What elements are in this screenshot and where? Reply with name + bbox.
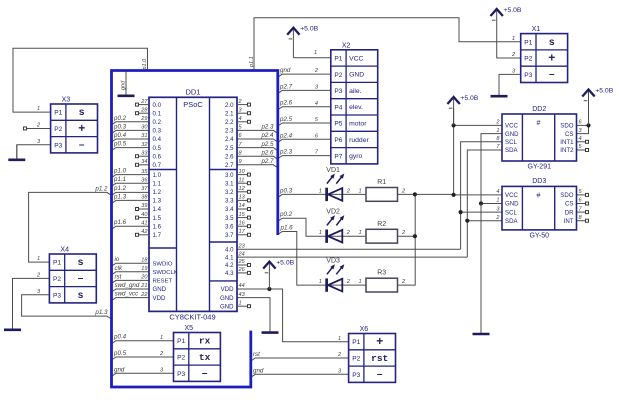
svg-text:+5.0B: +5.0B — [504, 7, 522, 14]
svg-text:4: 4 — [315, 101, 318, 107]
svg-text:P2: P2 — [177, 354, 185, 361]
svg-text:14: 14 — [239, 203, 245, 209]
svg-text:1: 1 — [239, 300, 242, 306]
svg-text:1: 1 — [512, 36, 515, 42]
svg-text:1: 1 — [496, 128, 499, 134]
svg-text:p2.4: p2.4 — [279, 132, 293, 139]
svg-text:42: 42 — [141, 229, 148, 235]
svg-text:p2.3: p2.3 — [260, 124, 274, 131]
svg-text:p1.6: p1.6 — [113, 219, 127, 226]
svg-text:3.1: 3.1 — [225, 180, 234, 187]
svg-text:GY-50: GY-50 — [529, 232, 549, 239]
svg-text:P3: P3 — [524, 72, 532, 79]
svg-text:17: 17 — [239, 229, 246, 235]
svg-text:3.2: 3.2 — [225, 189, 234, 196]
svg-text:CY8CKIT-049: CY8CKIT-049 — [169, 313, 215, 322]
svg-text:1: 1 — [160, 335, 163, 341]
svg-text:CS: CS — [565, 201, 573, 208]
svg-text:1.4: 1.4 — [153, 206, 162, 213]
svg-text:13: 13 — [239, 195, 246, 201]
svg-text:3.3: 3.3 — [225, 198, 234, 205]
svg-text:p0.5: p0.5 — [113, 350, 127, 357]
svg-text:–: – — [78, 273, 84, 284]
svg-text:p1.0: p1.0 — [142, 58, 148, 71]
svg-text:19: 19 — [141, 266, 147, 272]
svg-text:GND: GND — [220, 295, 234, 302]
svg-text:11: 11 — [239, 177, 245, 183]
svg-text:41: 41 — [141, 220, 147, 226]
svg-text:–: – — [377, 369, 383, 380]
svg-text:3.0: 3.0 — [225, 172, 234, 179]
svg-text:p2.7: p2.7 — [279, 83, 293, 90]
svg-text:2.0: 2.0 — [225, 102, 234, 109]
svg-text:VDD: VDD — [221, 286, 234, 293]
svg-text:p1.3: p1.3 — [94, 309, 108, 316]
svg-text:DD3: DD3 — [532, 178, 546, 185]
svg-text:44: 44 — [239, 283, 245, 289]
svg-text:s: s — [79, 107, 85, 118]
svg-text:2.1: 2.1 — [225, 110, 234, 117]
svg-text:0.6: 0.6 — [153, 153, 162, 160]
svg-text:s: s — [549, 37, 555, 48]
svg-text:X1: X1 — [532, 26, 541, 33]
svg-text:4: 4 — [496, 189, 499, 195]
svg-text:GY-291: GY-291 — [528, 164, 552, 171]
svg-text:gnd: gnd — [253, 367, 264, 374]
svg-text:VCC: VCC — [349, 55, 363, 62]
svg-text:0.3: 0.3 — [153, 128, 162, 135]
svg-text:3.7: 3.7 — [225, 232, 234, 239]
svg-text:P6: P6 — [334, 137, 342, 144]
svg-text:rst: rst — [115, 273, 122, 280]
svg-text:9: 9 — [239, 159, 242, 165]
svg-text:28: 28 — [140, 107, 148, 113]
svg-text:swd_gnd: swd_gnd — [115, 282, 140, 289]
svg-text:18: 18 — [141, 257, 148, 263]
svg-text:elev.: elev. — [349, 104, 363, 111]
svg-text:16: 16 — [239, 220, 246, 226]
svg-text:p2.4: p2.4 — [260, 132, 274, 139]
svg-text:+: + — [548, 51, 555, 65]
svg-text:VD1: VD1 — [326, 167, 340, 174]
svg-text:gnd: gnd — [121, 80, 127, 90]
svg-text:tx: tx — [199, 352, 211, 363]
svg-text:1: 1 — [359, 279, 362, 285]
svg-text:2.6: 2.6 — [225, 153, 234, 160]
svg-text:rudder: rudder — [349, 137, 369, 144]
svg-text:1.7: 1.7 — [153, 232, 162, 239]
svg-text:p2.7: p2.7 — [260, 158, 274, 165]
svg-text:p0.5: p0.5 — [113, 141, 127, 148]
svg-text:p2.6: p2.6 — [279, 100, 293, 107]
svg-text:27: 27 — [140, 99, 148, 105]
svg-text:1: 1 — [37, 256, 40, 262]
svg-text:3.4: 3.4 — [225, 206, 234, 213]
svg-text:1.3: 1.3 — [153, 198, 162, 205]
svg-text:p0.3: p0.3 — [113, 123, 127, 130]
svg-text:P2: P2 — [53, 276, 61, 283]
svg-text:P2: P2 — [54, 126, 62, 133]
svg-text:36: 36 — [141, 177, 148, 183]
svg-text:31: 31 — [141, 133, 147, 139]
svg-text:R3: R3 — [377, 270, 386, 277]
svg-text:1: 1 — [319, 188, 322, 194]
svg-text:0.2: 0.2 — [153, 119, 162, 126]
svg-text:motor: motor — [349, 120, 367, 127]
svg-text:P3: P3 — [54, 142, 62, 149]
svg-text:39: 39 — [141, 203, 147, 209]
svg-text:37: 37 — [141, 186, 148, 192]
svg-text:1.1: 1.1 — [153, 180, 162, 187]
svg-text:4: 4 — [239, 116, 242, 122]
svg-text:VD2: VD2 — [326, 209, 340, 216]
svg-text:GND: GND — [505, 201, 519, 208]
svg-text:P1: P1 — [334, 55, 342, 62]
svg-text:2.7: 2.7 — [225, 162, 234, 169]
svg-text:P3: P3 — [177, 371, 185, 378]
svg-text:aile.: aile. — [349, 88, 362, 95]
svg-text:INT2: INT2 — [560, 147, 574, 154]
svg-text:GND: GND — [220, 303, 234, 310]
svg-text:rst: rst — [371, 353, 388, 364]
svg-text:1.2: 1.2 — [153, 189, 162, 196]
svg-text:1.0: 1.0 — [153, 172, 162, 179]
svg-text:#: # — [537, 120, 541, 127]
svg-text:1: 1 — [319, 279, 322, 285]
svg-text:SDA: SDA — [505, 218, 518, 225]
svg-text:43: 43 — [239, 292, 246, 298]
svg-text:12: 12 — [239, 186, 246, 192]
svg-text:3.6: 3.6 — [225, 223, 234, 230]
svg-text:1: 1 — [496, 198, 499, 204]
svg-text:P1: P1 — [524, 39, 532, 46]
svg-text:DD2: DD2 — [532, 106, 546, 113]
svg-text:P2: P2 — [524, 56, 532, 63]
svg-text:VCC: VCC — [505, 123, 518, 130]
svg-text:4.0: 4.0 — [225, 246, 234, 253]
svg-text:p1.0: p1.0 — [113, 168, 127, 175]
svg-text:P3: P3 — [334, 88, 342, 95]
svg-text:p2.5: p2.5 — [260, 141, 274, 148]
svg-text:p1.2: p1.2 — [94, 185, 108, 192]
svg-text:RESET: RESET — [153, 279, 173, 285]
svg-text:INT1: INT1 — [560, 139, 574, 146]
svg-text:p1.1: p1.1 — [113, 176, 126, 183]
svg-text:P3: P3 — [53, 292, 61, 299]
svg-text:s: s — [78, 257, 84, 268]
svg-text:P2: P2 — [334, 72, 342, 79]
svg-text:p0.4: p0.4 — [113, 132, 127, 139]
svg-text:+5.0B: +5.0B — [276, 259, 294, 266]
svg-text:+5.0B: +5.0B — [460, 95, 478, 102]
svg-text:VCC: VCC — [505, 192, 518, 199]
svg-text:X2: X2 — [342, 42, 351, 49]
svg-text:P1: P1 — [54, 110, 62, 117]
svg-text:INT: INT — [564, 218, 574, 225]
svg-text:24: 24 — [238, 251, 245, 257]
svg-text:DR: DR — [565, 209, 574, 216]
svg-text:p0.4: p0.4 — [113, 334, 127, 341]
svg-text:40: 40 — [141, 212, 148, 218]
svg-text:gyro: gyro — [349, 153, 362, 160]
svg-text:P3: P3 — [352, 372, 360, 379]
svg-text:4.3: 4.3 — [225, 270, 234, 277]
svg-text:SWDCLK: SWDCLK — [153, 270, 178, 276]
svg-text:4.1: 4.1 — [225, 254, 234, 261]
svg-text:+5.0B: +5.0B — [595, 87, 613, 94]
svg-text:0.1: 0.1 — [153, 110, 162, 117]
svg-text:p2.5: p2.5 — [279, 116, 293, 123]
svg-text:p2.3: p2.3 — [279, 149, 293, 156]
svg-text:29: 29 — [140, 116, 147, 122]
svg-text:X4: X4 — [60, 247, 69, 254]
svg-text:–: – — [549, 69, 555, 80]
svg-text:rx: rx — [199, 336, 211, 347]
svg-text:0.5: 0.5 — [153, 145, 162, 152]
svg-text:SCL: SCL — [505, 209, 517, 216]
svg-text:s: s — [78, 290, 84, 301]
svg-text:SDO: SDO — [560, 123, 573, 130]
svg-text:X3: X3 — [62, 97, 71, 104]
svg-text:PSoC: PSoC — [183, 100, 203, 109]
svg-text:clk: clk — [115, 265, 123, 272]
svg-text:P1: P1 — [352, 339, 360, 346]
svg-text:CS: CS — [565, 131, 573, 138]
svg-text:GND: GND — [349, 72, 364, 79]
svg-text:22: 22 — [140, 292, 148, 298]
svg-text:1: 1 — [338, 336, 341, 342]
svg-text:DD1: DD1 — [185, 87, 200, 96]
svg-text:P5: P5 — [334, 121, 342, 128]
svg-text:p0.2: p0.2 — [113, 115, 127, 122]
svg-text:4.2: 4.2 — [225, 262, 234, 269]
svg-text:30: 30 — [141, 125, 148, 131]
svg-text:p1.1: p1.1 — [249, 56, 255, 68]
svg-text:p1.6: p1.6 — [280, 225, 294, 232]
svg-text:1: 1 — [319, 230, 322, 236]
svg-text:26: 26 — [238, 267, 246, 273]
svg-text:10: 10 — [239, 169, 246, 175]
svg-text:#: # — [537, 192, 541, 199]
svg-text:1: 1 — [314, 50, 317, 56]
svg-text:p1.2: p1.2 — [113, 185, 127, 192]
svg-text:R2: R2 — [377, 221, 386, 228]
svg-text:gnd: gnd — [280, 67, 291, 74]
svg-text:1: 1 — [359, 188, 362, 194]
svg-text:32: 32 — [141, 142, 148, 148]
svg-text:io: io — [115, 256, 120, 263]
svg-text:33: 33 — [141, 150, 148, 156]
svg-text:1: 1 — [359, 230, 362, 236]
svg-text:38: 38 — [141, 195, 148, 201]
svg-text:1.5: 1.5 — [153, 215, 162, 222]
svg-text:1: 1 — [37, 106, 40, 112]
svg-text:2.5: 2.5 — [225, 145, 234, 152]
svg-text:p1.3: p1.3 — [113, 193, 127, 200]
svg-text:20: 20 — [140, 275, 148, 281]
svg-text:0.0: 0.0 — [153, 102, 162, 109]
svg-text:+5.0B: +5.0B — [300, 26, 318, 33]
svg-text:swd_vcc: swd_vcc — [115, 291, 140, 298]
svg-text:2.2: 2.2 — [225, 119, 234, 126]
svg-text:SDO: SDO — [560, 192, 573, 199]
svg-text:P1: P1 — [53, 260, 61, 267]
svg-text:+: + — [78, 121, 85, 135]
svg-text:23: 23 — [238, 243, 246, 249]
svg-text:X6: X6 — [360, 326, 369, 333]
svg-text:0.7: 0.7 — [153, 162, 162, 169]
svg-text:SDA: SDA — [505, 147, 518, 154]
svg-text:–: – — [79, 139, 85, 150]
svg-text:+: + — [376, 334, 383, 348]
svg-text:P7: P7 — [334, 153, 342, 160]
svg-text:2.4: 2.4 — [225, 136, 234, 143]
svg-text:4: 4 — [579, 136, 582, 142]
svg-text:P4: P4 — [334, 104, 342, 111]
svg-text:2.3: 2.3 — [225, 128, 234, 135]
svg-text:p0.3: p0.3 — [279, 187, 293, 194]
svg-text:21: 21 — [140, 283, 147, 289]
svg-text:25: 25 — [238, 259, 246, 265]
svg-text:p2.6: p2.6 — [260, 149, 274, 156]
svg-text:3.5: 3.5 — [225, 215, 234, 222]
svg-text:rst: rst — [253, 351, 260, 358]
svg-text:34: 34 — [141, 159, 147, 165]
svg-text:GND: GND — [505, 131, 519, 138]
svg-text:VD3: VD3 — [326, 258, 340, 265]
svg-text:SWDIO: SWDIO — [153, 261, 173, 267]
svg-text:35: 35 — [141, 169, 148, 175]
svg-text:p0.2: p0.2 — [279, 211, 293, 218]
svg-text:VDD: VDD — [153, 295, 166, 302]
svg-text:R1: R1 — [377, 179, 386, 186]
svg-text:P1: P1 — [177, 338, 185, 345]
svg-text:X5: X5 — [185, 325, 194, 332]
svg-text:gnd: gnd — [114, 366, 125, 373]
svg-text:0.4: 0.4 — [153, 136, 162, 143]
svg-text:SCL: SCL — [505, 139, 517, 146]
svg-text:15: 15 — [239, 212, 246, 218]
svg-text:P2: P2 — [352, 355, 360, 362]
svg-text:GND: GND — [153, 286, 167, 293]
svg-text:–: – — [202, 368, 208, 379]
svg-text:1.6: 1.6 — [153, 223, 162, 230]
